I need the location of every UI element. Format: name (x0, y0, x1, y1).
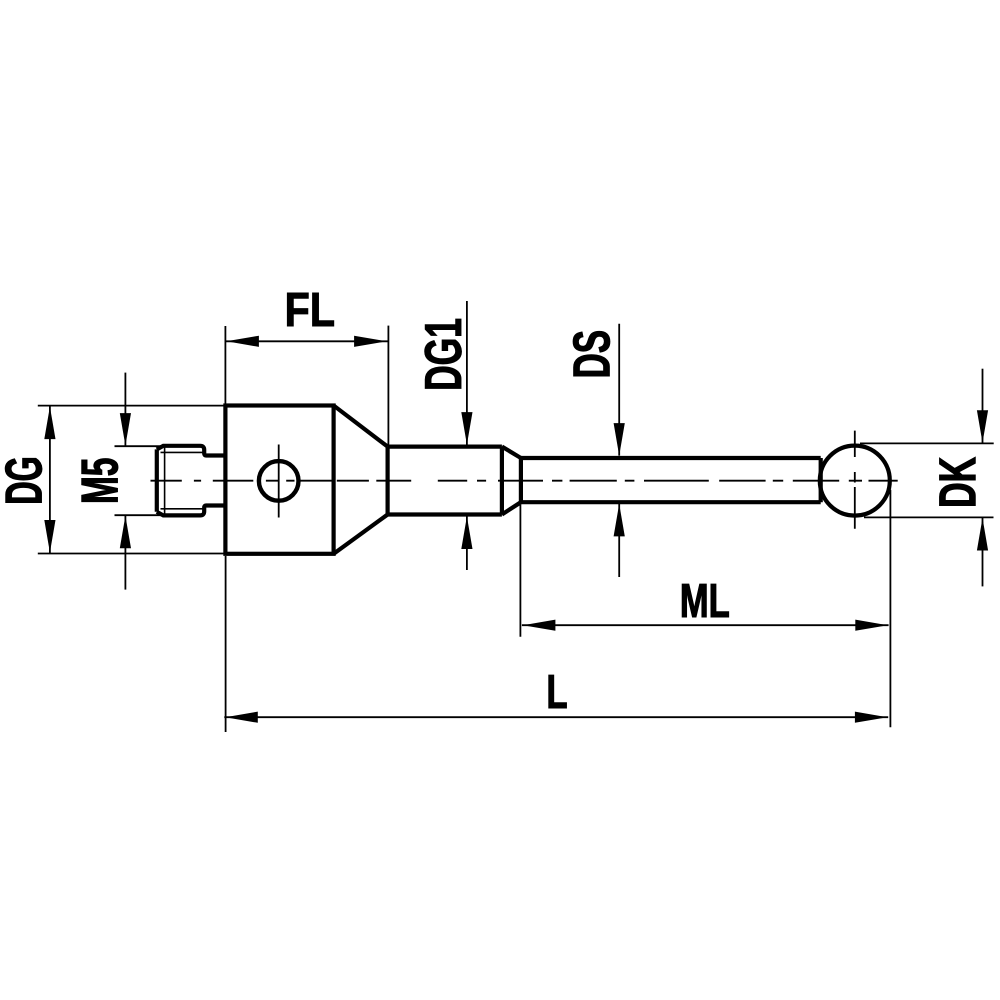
ball vertical centerline (854, 431, 856, 529)
dim L line + arrows (224, 716, 888, 718)
dim ML extension lines (519, 505, 521, 637)
label DK (940, 484, 976, 506)
dim M5 line + arrows (outside) (124, 373, 126, 447)
dim DS lines + arrows (outside) (618, 324, 620, 456)
body (flange) (225, 406, 333, 554)
label ML (682, 584, 706, 617)
label DS (574, 355, 610, 376)
label L (549, 675, 567, 708)
DG1 cylinder (388, 447, 502, 515)
dim DK lines + arrows (outside) (982, 369, 984, 444)
label DG1 (425, 367, 461, 389)
chamfer cylinder->stem (502, 447, 521, 458)
label M5 (82, 478, 118, 501)
dim DG line + arrows (49, 406, 51, 554)
dim FL extension lines (224, 326, 226, 404)
dim DG extension lines (38, 405, 224, 407)
hole in body (259, 461, 299, 501)
label DG (6, 483, 42, 503)
dim ML line + arrows (522, 624, 889, 626)
label FL (287, 293, 308, 326)
ball tip (820, 446, 890, 516)
hole vertical centerline (278, 445, 280, 518)
dim FL line + arrows (225, 340, 387, 342)
thread root thin lines (161, 451, 203, 453)
cone transition (334, 406, 388, 447)
dim M5 extension lines (115, 445, 162, 447)
dim DK extension lines (860, 442, 994, 444)
dim DG1 lines + arrows (outside) (466, 301, 468, 445)
stem (521, 458, 821, 502)
thread chamfer thin vertical (164, 447, 166, 514)
part outline: thread stub M5 (155, 449, 159, 511)
main horizontal centerline (151, 480, 898, 482)
dim L extension line left (225, 556, 227, 732)
